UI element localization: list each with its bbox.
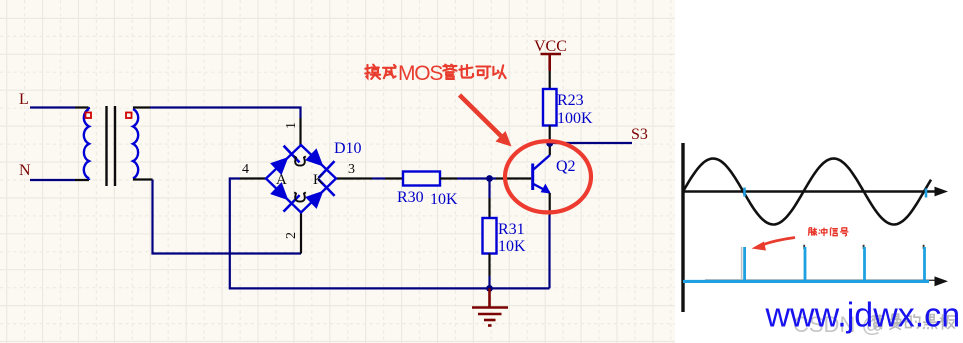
pulse axis blue	[683, 280, 929, 283]
transformer T1 primary pins	[75, 108, 89, 181]
transistor Q2 emitter pin wire	[549, 193, 551, 215]
transformer T1 core	[107, 106, 116, 186]
wire R31 to ground junction	[488, 254, 490, 277]
bridge D10 AC mark bottom	[294, 192, 306, 201]
transistor Q2 base pin	[496, 177, 531, 179]
pulse top ticks	[804, 245, 923, 249]
svg-text:4: 4	[242, 162, 249, 177]
wire bridge pin3 to R30	[362, 177, 372, 179]
svg-text:100K: 100K	[557, 110, 593, 127]
svg-text:N: N	[19, 162, 31, 179]
pulse 1 shadow	[741, 247, 743, 280]
annotation text pulse signal	[808, 227, 848, 236]
transformer T1 secondary pins	[133, 108, 153, 180]
svg-text:K: K	[313, 172, 324, 188]
svg-text:L: L	[19, 91, 29, 108]
pulse 4	[923, 247, 926, 281]
bridge rectifier D10 pin 3	[336, 177, 362, 179]
svg-text:Q2: Q2	[556, 158, 576, 175]
pulse 1	[743, 247, 746, 281]
wire secondary bottom to bridge pin2	[153, 180, 302, 254]
svg-text:MOS: MOS	[398, 62, 443, 85]
junction collector node	[546, 140, 553, 147]
svg-text:3: 3	[348, 162, 355, 177]
svg-text:A: A	[276, 172, 287, 188]
resistor R30	[403, 172, 440, 186]
wire R30 to base node	[440, 177, 457, 179]
annotation text: 换成MOS管也可以	[365, 65, 395, 79]
waveform sine axis	[683, 190, 938, 192]
transistor Q2 collector pin wire	[549, 144, 551, 156]
ground symbol	[472, 288, 508, 325]
transformer T1 secondary coil	[133, 109, 138, 179]
waveform sine curve	[683, 159, 931, 225]
svg-text:R31: R31	[498, 221, 525, 238]
bridge D10 diode A-1	[270, 157, 288, 175]
waveform vertical axis	[681, 143, 684, 312]
svg-text:2: 2	[284, 232, 299, 239]
transformer T1 primary coil	[84, 109, 89, 179]
annotation arrow to Q2	[460, 95, 502, 136]
svg-text:D10: D10	[334, 140, 362, 157]
bridge rectifier D10 diamond	[266, 145, 336, 213]
svg-text:R30: R30	[397, 189, 424, 206]
bridge D10 diode 1-K	[305, 148, 323, 166]
svg-text:VCC: VCC	[534, 38, 567, 55]
wire secondary top to bridge pin1	[150, 108, 301, 119]
transformer T1 secondary polarity dot	[126, 113, 132, 119]
wire to S3	[550, 142, 632, 144]
transistor Q2	[533, 155, 551, 194]
pulse 3	[863, 247, 866, 281]
resistor R31	[483, 218, 497, 254]
svg-text:R23: R23	[557, 92, 584, 109]
wire pin4 down to bottom rail	[230, 179, 550, 289]
wire node down to R31	[488, 179, 490, 199]
annotation small arrow	[759, 238, 795, 247]
transformer T1 primary polarity dot	[86, 113, 92, 119]
wire N to transformer	[30, 179, 75, 181]
junction ground node	[486, 285, 493, 292]
bridge D10 diode A-2	[270, 182, 288, 200]
bridge rectifier D10 pin 2	[300, 213, 302, 254]
waveform sync tick 2	[925, 189, 928, 198]
resistor R23	[543, 89, 557, 126]
waveform sync tick 1	[743, 188, 746, 197]
wire VCC to R23	[549, 71, 551, 89]
svg-text:10K: 10K	[498, 238, 526, 255]
wire L to transformer	[30, 106, 75, 108]
bridge D10 diode 2-K	[305, 191, 323, 209]
svg-text:1: 1	[284, 122, 299, 129]
svg-text:10K: 10K	[430, 191, 458, 208]
bridge rectifier D10 pin 4	[240, 177, 266, 179]
annotation ellipse around Q2	[505, 141, 591, 212]
pulse axis black	[705, 279, 940, 281]
svg-text:www.jdwx.cn: www.jdwx.cn	[765, 297, 961, 335]
bridge rectifier D10 pin 1	[299, 118, 301, 145]
junction base node	[486, 175, 493, 182]
wire R23 to collector node	[549, 126, 551, 144]
bridge D10 AC mark top	[294, 156, 306, 165]
svg-text:S3: S3	[631, 126, 648, 143]
pulse 2	[804, 247, 807, 281]
